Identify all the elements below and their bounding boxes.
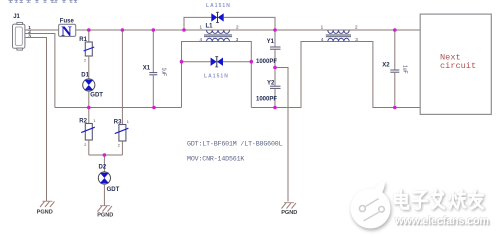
wire L2 pin3 to neutral: [349, 42, 420, 108]
svg-text:D2: D2: [99, 164, 107, 170]
junction arrester row left (L1 pin4): [180, 60, 184, 64]
svg-text:Y1: Y1: [267, 39, 275, 45]
svg-text:1000PF: 1000PF: [256, 59, 277, 65]
neutral rail left segment: [55, 107, 182, 109]
junction Y2/neutral rail: [273, 106, 277, 110]
surge arrester upper LA151N: [184, 3, 275, 30]
wire Y midpoint to ground: [275, 68, 288, 202]
svg-text:N: N: [61, 24, 72, 40]
surge arrester lower LA151N: [182, 57, 252, 80]
svg-text:R2: R2: [79, 118, 87, 124]
junction arrester branch/live rail: [182, 28, 186, 32]
connector J1: [13, 14, 25, 50]
dian: [395, 190, 408, 208]
svg-text:GDT: GDT: [90, 93, 103, 99]
svg-text:R3: R3: [114, 119, 122, 125]
zi: [413, 192, 428, 209]
svg-text:1: 1: [93, 119, 95, 123]
svg-text:X1: X1: [143, 65, 151, 71]
svg-text:PGND: PGND: [97, 212, 113, 218]
capacitor Y2: [256, 68, 281, 108]
gas discharge tube D1: [81, 56, 103, 108]
fa: [432, 190, 445, 208]
varistor R2: [79, 108, 95, 156]
svg-text:2: 2: [84, 143, 86, 147]
svg-text:GDT:LT-BF601M /LT-B8G600L: GDT:LT-BF601M /LT-B8G600L: [187, 140, 283, 147]
svg-text:L1: L1: [206, 24, 214, 30]
junction Y1/live rail: [273, 28, 277, 32]
gas discharge tube D2: [98, 155, 119, 206]
junction X2/live rail: [393, 28, 397, 32]
junction R2/R3 join to D2: [103, 153, 107, 157]
shao: [450, 191, 466, 209]
varistor R3: [114, 30, 129, 155]
transformer L2: [321, 24, 359, 42]
svg-text:1: 1: [200, 24, 203, 29]
wire R2/R3 junction bar: [89, 154, 123, 156]
wire L1 pin4 drop: [182, 42, 207, 108]
wire L1 pin3 drop: [230, 42, 252, 108]
wire J1 pin3 to ground drop: [25, 38, 47, 202]
junction Y1/Y2 midpoint: [273, 66, 277, 70]
svg-text:2: 2: [355, 24, 358, 29]
watermark text dianzifashaoyou: [392, 187, 492, 219]
ground PGND (under D2): [97, 206, 113, 219]
svg-text:X2: X2: [382, 63, 390, 69]
fuse F1: [59, 18, 76, 39]
svg-text:LA151N: LA151N: [204, 74, 229, 80]
neutral rail right segment: [251, 42, 327, 108]
svg-text:1000PF: 1000PF: [256, 96, 277, 102]
junction D1-R2/neutral rail: [87, 106, 91, 110]
junction R3/live rail: [121, 28, 125, 32]
varistor R1: [79, 30, 94, 63]
ground PGND (left, J1 pin3): [37, 201, 55, 215]
capacitor X2: [382, 30, 407, 108]
wire live rail L1 to L2: [230, 29, 328, 31]
svg-text:1uF: 1uF: [161, 68, 167, 77]
svg-text:GDT: GDT: [107, 187, 120, 193]
svg-text:D1: D1: [81, 73, 89, 79]
J1 pin numbers: [28, 25, 31, 39]
capacitor X1: [143, 30, 167, 108]
wire J1 pin2 to neutral drop: [25, 34, 55, 108]
wire J1 pin1 to fuse: [25, 29, 59, 31]
ground PGND (Y caps): [281, 203, 297, 216]
title text: [9, 0, 78, 3]
junction X2/neutral rail: [393, 106, 397, 110]
svg-text:2: 2: [118, 144, 120, 148]
svg-text:2: 2: [84, 59, 86, 63]
watermark text www.elecfans.com: [395, 215, 489, 227]
svg-text:1: 1: [127, 120, 129, 124]
svg-text:1: 1: [321, 24, 324, 29]
svg-text:LA151N: LA151N: [206, 3, 231, 9]
svg-text:4: 4: [321, 37, 324, 42]
junction X1/neutral rail: [152, 106, 156, 110]
svg-text:3: 3: [28, 33, 31, 39]
capacitor Y1: [256, 30, 281, 68]
svg-text:R1: R1: [79, 37, 87, 43]
svg-text:1uF: 1uF: [402, 65, 408, 74]
junction arrester row right (L1 pin3): [250, 60, 254, 64]
svg-text:MOV:CNR-14D561K: MOV:CNR-14D561K: [187, 155, 244, 162]
wire live rail L2 to next-circuit box: [349, 29, 420, 31]
svg-text:2: 2: [236, 24, 239, 29]
watermark logo elecfans: [344, 178, 408, 240]
svg-text:circuit: circuit: [440, 61, 476, 71]
svg-text:Fuse: Fuse: [60, 18, 75, 24]
you: [469, 191, 483, 209]
svg-text:J1: J1: [13, 14, 20, 20]
next circuit box: [420, 14, 491, 114]
svg-text:PGND: PGND: [281, 210, 297, 216]
junction X1/live rail: [152, 28, 156, 32]
svg-text:PGND: PGND: [37, 209, 53, 215]
junction R1/live rail: [87, 28, 91, 32]
transformer L1: [200, 24, 240, 43]
svg-text:Y2: Y2: [267, 80, 275, 86]
wire live rail fuse to L1: [76, 29, 207, 31]
